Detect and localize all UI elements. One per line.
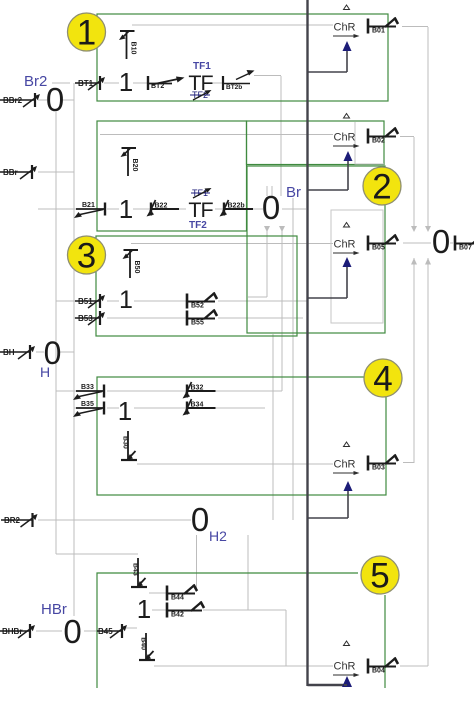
svg-text:B50: B50	[133, 261, 140, 274]
svg-text:B01: B01	[372, 28, 385, 35]
contact BR2	[1, 513, 38, 527]
svg-text:B43: B43	[132, 563, 139, 576]
green box row3 left	[96, 236, 297, 336]
wire timer3 to B07	[450, 242, 453, 244]
label TF1 crossed row2	[191, 188, 212, 198]
svg-text:B35: B35	[81, 401, 94, 408]
green box 2b	[247, 121, 385, 165]
wire right vertical x414 upper	[411, 137, 417, 232]
contact B07	[455, 235, 474, 252]
or gate 1 row3	[119, 286, 133, 314]
wire vertical x267 into box3	[248, 226, 270, 297]
timer 0 row3 right	[432, 223, 450, 260]
block TF row2	[188, 198, 213, 222]
wire B01 to x428	[402, 26, 428, 28]
svg-text:B55: B55	[191, 320, 204, 327]
wire B51 row	[56, 300, 307, 302]
label Br	[286, 184, 301, 201]
block ChR5	[333, 641, 360, 677]
wire B02 to x414	[400, 136, 414, 138]
contact B22	[147, 200, 180, 217]
svg-text:B32: B32	[191, 385, 204, 392]
svg-text:BT2b: BT2b	[226, 84, 242, 91]
svg-text:BHBr: BHBr	[2, 627, 22, 636]
contact B42	[167, 602, 204, 619]
contact B53	[75, 311, 105, 325]
svg-text:B10: B10	[130, 42, 137, 55]
contact B44	[167, 585, 197, 602]
contact B03	[368, 455, 398, 472]
svg-text:B04: B04	[372, 668, 385, 675]
wire ChR5 input	[154, 665, 333, 667]
or gate 1 row2	[119, 194, 133, 224]
block TF row1	[188, 71, 213, 95]
timer 0 row4 left	[44, 335, 62, 371]
marker circle 4	[364, 359, 402, 399]
svg-text:B52: B52	[191, 303, 204, 310]
timer 0 H2	[191, 501, 209, 538]
label H	[40, 364, 50, 380]
svg-text:ChR: ChR	[334, 239, 356, 251]
wire B35 row	[74, 407, 265, 409]
block ChR1	[333, 5, 360, 38]
svg-text:TF1: TF1	[193, 61, 211, 72]
svg-text:B07: B07	[459, 245, 472, 252]
contact B02	[368, 128, 398, 145]
contact B45	[97, 624, 127, 638]
navy arrow ChR1	[308, 41, 352, 72]
or gate 1 row1	[119, 67, 133, 97]
wire B43 to B44	[149, 592, 167, 594]
svg-text:Br: Br	[286, 184, 301, 201]
svg-text:1: 1	[119, 67, 133, 97]
or gate 1 row5	[137, 594, 151, 624]
svg-text:B33: B33	[81, 384, 94, 391]
svg-text:ChR: ChR	[334, 132, 356, 144]
navy arrow ChR4	[308, 481, 353, 518]
svg-text:B20: B20	[131, 159, 138, 172]
wire left vertical x56	[55, 112, 57, 554]
svg-text:ChR: ChR	[334, 22, 356, 34]
green box 2	[97, 121, 247, 231]
wire gate row5	[126, 610, 166, 628]
trip bus arrow into ChR5	[342, 676, 352, 687]
wire ChR2 input	[100, 134, 333, 136]
svg-text:B21: B21	[82, 202, 95, 209]
svg-text:1: 1	[137, 594, 151, 624]
svg-text:B51: B51	[78, 297, 93, 306]
contact BT2	[148, 76, 185, 90]
label H2	[209, 528, 227, 544]
svg-text:H2: H2	[209, 528, 227, 544]
svg-text:0: 0	[191, 501, 209, 538]
svg-text:3: 3	[77, 237, 96, 276]
svg-text:B53: B53	[78, 314, 93, 323]
wire B42 output to ChR5	[203, 610, 286, 666]
marker circle 1	[68, 13, 106, 53]
label TF1 row1	[193, 61, 211, 72]
navy arrow ChR3	[308, 257, 352, 298]
contact B01	[368, 18, 398, 35]
svg-text:B22b: B22b	[228, 203, 245, 210]
contact BT1	[75, 76, 105, 90]
wire right vertical x428 lower	[425, 258, 431, 666]
block ChR4	[333, 442, 360, 475]
svg-text:1: 1	[119, 194, 133, 224]
contact B33	[73, 384, 104, 400]
svg-text:TF: TF	[188, 198, 213, 222]
wire vertical x293	[292, 198, 294, 520]
or gate 1 row4	[118, 396, 132, 426]
contact B22b	[220, 200, 254, 217]
trip bus vertical	[308, 0, 345, 686]
wire gate1 row1	[104, 82, 223, 84]
wire ChR1 input	[132, 24, 333, 26]
svg-text:1: 1	[118, 396, 132, 426]
wire Br2 to BT1	[52, 82, 70, 84]
wire to B43	[56, 553, 138, 555]
label HBr	[41, 601, 67, 618]
svg-text:BBr2: BBr2	[3, 96, 23, 105]
contact BBr	[0, 165, 37, 179]
svg-text:0: 0	[46, 81, 64, 118]
green box 5 open	[97, 573, 385, 688]
svg-text:0: 0	[63, 613, 81, 650]
contact B05	[368, 235, 398, 252]
wire H2 timer down x196	[196, 535, 198, 592]
wire BHBr row	[36, 630, 97, 632]
wire vertical x248 row5	[247, 535, 249, 610]
contact B51	[75, 294, 105, 308]
contact B30 vertical	[121, 431, 137, 460]
svg-text:H: H	[40, 364, 50, 380]
gray box around ChR3	[331, 210, 383, 323]
svg-text:B05: B05	[372, 245, 385, 252]
wire B22b output	[253, 208, 263, 210]
contact B32	[183, 382, 216, 399]
svg-text:ChR: ChR	[334, 661, 356, 673]
wire row1 output down x281	[254, 76, 281, 197]
svg-text:BR2: BR2	[4, 516, 21, 525]
block ChR2	[333, 114, 360, 149]
svg-text:Br2: Br2	[24, 73, 47, 90]
contact B55	[187, 310, 217, 327]
contact B52	[187, 293, 217, 310]
svg-text:B22: B22	[155, 203, 168, 210]
wire B21 input	[38, 208, 76, 210]
contact BHBr	[0, 624, 35, 638]
gray box around ChR2	[355, 122, 384, 164]
wire BBr output	[38, 171, 74, 173]
svg-text:B44: B44	[171, 595, 184, 602]
wire B03 to x414	[403, 462, 414, 464]
wire BR2 to timer H2	[38, 519, 191, 521]
label TF2 crossed row1	[190, 90, 212, 100]
label Br2	[24, 73, 47, 90]
svg-text:TF2: TF2	[189, 220, 207, 231]
green box 3	[247, 166, 385, 333]
timer 0 row1 left	[46, 81, 64, 118]
contact B10 vertical	[119, 31, 137, 59]
wire gate1 row2	[107, 208, 224, 210]
svg-text:0: 0	[432, 223, 450, 260]
wire vertical x282	[279, 226, 285, 391]
contact B35	[73, 401, 104, 417]
navy arrow ChR2	[308, 151, 353, 190]
timer 0 row2	[262, 189, 280, 226]
contact B21	[74, 202, 105, 218]
wire B53 row	[74, 317, 303, 319]
svg-text:4: 4	[373, 360, 392, 399]
svg-text:ChR: ChR	[334, 459, 356, 471]
wire BH to timer	[36, 351, 74, 353]
wire B04 to x428	[400, 665, 428, 667]
wire timer row2	[248, 186, 306, 209]
svg-text:1: 1	[77, 14, 96, 53]
marker circle 3	[68, 236, 106, 276]
svg-text:0: 0	[262, 189, 280, 226]
contact B34	[183, 399, 216, 416]
marker circle 2	[363, 167, 401, 207]
green box 1	[97, 14, 388, 101]
timer 0 row5	[63, 613, 81, 650]
green box 4	[97, 377, 386, 495]
contact BH	[0, 345, 35, 359]
svg-text:B45: B45	[98, 627, 113, 636]
svg-text:B30: B30	[122, 436, 129, 449]
svg-text:B42: B42	[171, 612, 184, 619]
wire BBr2 to timer	[38, 99, 74, 101]
svg-text:2: 2	[372, 168, 391, 207]
contact B04	[368, 658, 398, 675]
contact BT2b	[223, 70, 255, 91]
contact B50 vertical	[123, 250, 141, 278]
svg-text:B03: B03	[372, 465, 385, 472]
contact B43 vertical	[131, 558, 147, 587]
wire ChR3 input	[131, 243, 333, 245]
svg-text:B34: B34	[191, 402, 204, 409]
wire ChR4 input	[137, 463, 333, 465]
contact B40 vertical	[139, 633, 155, 660]
svg-text:B40: B40	[140, 637, 147, 650]
wire vertical x273	[272, 334, 274, 520]
contact BBr2	[0, 93, 40, 107]
block ChR3	[333, 223, 360, 256]
contact B20 vertical	[121, 148, 139, 176]
wire B05 to timer	[403, 242, 431, 244]
svg-text:5: 5	[370, 557, 389, 596]
svg-text:BH: BH	[3, 348, 15, 357]
wire right vertical x414 lower	[411, 258, 417, 463]
label TF2 row2	[189, 220, 207, 231]
wire B33 row	[56, 390, 282, 392]
svg-text:BBr: BBr	[3, 168, 18, 177]
svg-text:1: 1	[119, 286, 133, 314]
wire left vertical x74	[73, 83, 75, 616]
wire right vertical x428 upper	[425, 27, 431, 232]
svg-text:B02: B02	[372, 138, 385, 145]
marker circle 5	[361, 556, 399, 596]
